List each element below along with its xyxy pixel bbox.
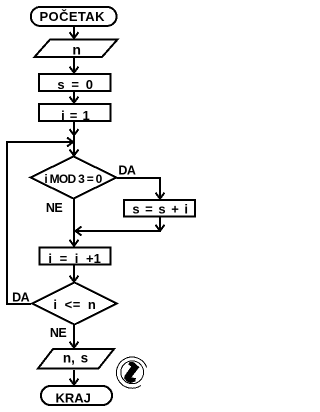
process box i = 1 [39,104,111,121]
svg-text:DA: DA [118,163,136,177]
process box s = s + i [124,200,195,217]
stamp glyph [124,362,139,383]
svg-text:s = s + i: s = s + i [132,202,188,217]
svg-text:i = 1: i = 1 [61,108,90,123]
wire output to KRAJ [73,370,75,384]
stamp outer arc [116,357,146,388]
svg-text:i = i +1: i = i +1 [48,251,100,266]
svg-text:NE: NE [46,201,63,215]
svg-text:n, s: n, s [63,350,88,365]
wire i=i+1 to diamond 2 [73,266,75,282]
wire s=s+i down [159,218,161,231]
svg-text:n: n [72,42,81,58]
decision diamond i <= n [32,283,117,325]
stamp inner circle [121,361,144,384]
wire NE branch down to output [73,325,75,347]
output parallelogram n, s [38,349,114,369]
svg-text:NE: NE [50,326,67,340]
wire i=1 down to junction and diamond [73,122,75,156]
decision diamond i MOD 3 = 0 [31,157,117,199]
wire DA branch to s=s+i [117,178,161,198]
process box i = i + 1 [40,248,111,265]
svg-text:i <= n: i <= n [53,297,96,312]
input parallelogram n [35,40,118,58]
wire return to main line [76,230,161,232]
svg-text:KRAJ: KRAJ [55,390,90,405]
publisher stamp icon [116,357,146,388]
svg-text:POČETAK: POČETAK [39,9,105,24]
wire input to s=0 [73,58,75,72]
terminator POCETAK [31,7,117,26]
wire loop-back from i<=n DA [7,142,72,304]
svg-text:DA: DA [12,291,30,305]
process box s = 0 [39,74,111,91]
wire NE branch down to i=i+1 [73,199,75,247]
svg-text:i MOD 3 = 0: i MOD 3 = 0 [44,172,102,186]
wire start to input [73,27,75,38]
terminator KRAJ [41,386,112,405]
svg-text:s = 0: s = 0 [57,77,93,92]
wire s=0 to i=1 [73,92,75,102]
